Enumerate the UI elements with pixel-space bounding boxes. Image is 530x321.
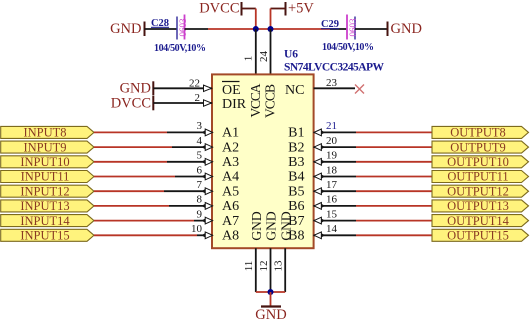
wire OUTPUT12 (red) bbox=[356, 190, 432, 192]
pin A1 bidirectional arrow bbox=[202, 129, 213, 136]
pin name GND (bottom 1, rotated) bbox=[249, 211, 264, 240]
svg-text:OUTPUT13: OUTPUT13 bbox=[447, 199, 509, 213]
pin B3 bidirectional arrow bbox=[314, 158, 325, 165]
wire to pin A7 (black) bbox=[194, 220, 212, 222]
svg-text:+5V: +5V bbox=[288, 1, 314, 17]
wire INPUT8 (red) bbox=[94, 131, 167, 133]
svg-text:GND: GND bbox=[391, 21, 422, 37]
svg-text:2: 2 bbox=[195, 92, 201, 104]
svg-text:9: 9 bbox=[197, 208, 203, 220]
svg-text:GND: GND bbox=[255, 307, 286, 321]
svg-text:B4: B4 bbox=[288, 170, 304, 185]
wire to bottom GND bbox=[270, 292, 272, 307]
ground symbol GND (bottom) bbox=[255, 307, 286, 321]
pin name VCCB (rotated) bbox=[263, 84, 278, 118]
svg-text:SN74LVCC3245APW: SN74LVCC3245APW bbox=[284, 62, 385, 74]
pin number 17 bbox=[326, 179, 338, 191]
pin A2 bidirectional arrow bbox=[202, 144, 213, 151]
svg-text:NC: NC bbox=[285, 83, 304, 98]
svg-text:A8: A8 bbox=[222, 229, 239, 244]
svg-text:21: 21 bbox=[326, 120, 337, 132]
net flag OUTPUT14 bbox=[432, 214, 529, 228]
ground symbol GND (top left) bbox=[110, 21, 144, 37]
svg-text:GND: GND bbox=[278, 211, 293, 240]
pin name A7 bbox=[222, 214, 239, 229]
pin name VCCA (rotated) bbox=[248, 83, 263, 117]
svg-text:GND: GND bbox=[120, 81, 151, 97]
svg-text:13: 13 bbox=[273, 260, 285, 272]
svg-text:GND: GND bbox=[249, 211, 264, 240]
pin number 15 bbox=[326, 208, 338, 220]
pin number 11 bbox=[243, 261, 255, 272]
pin number 7 bbox=[197, 179, 203, 191]
net flag INPUT8 bbox=[1, 126, 94, 140]
wire OUTPUT11 (red) bbox=[356, 176, 432, 178]
wire INPUT11 (red) bbox=[94, 176, 175, 178]
capacitor C29 bbox=[321, 15, 374, 54]
svg-text:18: 18 bbox=[326, 164, 338, 176]
wire C29 to GND bbox=[355, 28, 388, 30]
pin 22 input arrow bbox=[204, 85, 212, 91]
pin number 24 bbox=[258, 51, 270, 63]
net flag OUTPUT10 bbox=[432, 155, 529, 169]
pin name A2 bbox=[222, 140, 239, 155]
pin B7 bidirectional arrow bbox=[314, 217, 325, 224]
wire rail to C29 bbox=[330, 28, 347, 30]
designator U6 bbox=[284, 49, 298, 61]
wire from pin B7 (black) bbox=[314, 220, 356, 222]
wire to pin A5 (black) bbox=[164, 190, 212, 192]
pin name A5 bbox=[222, 184, 239, 199]
power port DVCC (top) bbox=[199, 1, 241, 17]
wire +5V to rail bbox=[271, 9, 286, 30]
svg-text:24: 24 bbox=[258, 51, 270, 63]
pin A4 bidirectional arrow bbox=[202, 173, 213, 180]
svg-text:B3: B3 bbox=[288, 155, 304, 170]
svg-text:VCCA: VCCA bbox=[248, 83, 263, 117]
pin number 18 bbox=[326, 164, 338, 176]
pin name B7 bbox=[288, 214, 304, 229]
pin name B8 bbox=[288, 229, 304, 244]
pin name B4 bbox=[288, 170, 304, 185]
pin B6 bidirectional arrow bbox=[314, 203, 325, 210]
svg-text:OUTPUT15: OUTPUT15 bbox=[447, 229, 509, 243]
net flag INPUT9 bbox=[1, 140, 94, 154]
junction node ground bus bbox=[268, 289, 274, 295]
svg-text:5: 5 bbox=[197, 150, 203, 162]
svg-text:U6: U6 bbox=[284, 49, 298, 61]
wire to pin A6 (black) bbox=[169, 205, 212, 207]
net flag OUTPUT11 bbox=[432, 170, 529, 184]
pin name B3 bbox=[288, 155, 304, 170]
pin A5 bidirectional arrow bbox=[202, 188, 213, 195]
wire INPUT14 (red) bbox=[94, 220, 194, 222]
svg-text:A2: A2 bbox=[222, 140, 239, 155]
svg-text:A3: A3 bbox=[222, 155, 239, 170]
pin number 20 bbox=[326, 135, 338, 147]
wire OUTPUT8 (red) bbox=[356, 131, 432, 133]
svg-text:14: 14 bbox=[326, 223, 338, 235]
svg-text:VCCB: VCCB bbox=[263, 84, 278, 118]
svg-text:15: 15 bbox=[326, 208, 338, 220]
pin number 10 bbox=[191, 223, 203, 235]
wire OUTPUT14 (red) bbox=[356, 220, 432, 222]
wire DVCC to DIR pin 2 bbox=[153, 102, 212, 104]
svg-text:11: 11 bbox=[243, 261, 255, 272]
svg-text:OE: OE bbox=[222, 83, 241, 98]
svg-text:INPUT13: INPUT13 bbox=[20, 199, 69, 213]
net flag INPUT10 bbox=[1, 155, 94, 169]
wire GND to OE pin 22 bbox=[153, 87, 212, 89]
svg-text:OUTPUT11: OUTPUT11 bbox=[447, 170, 508, 184]
pin number 8 bbox=[197, 194, 203, 206]
wire to pin A3 (black) bbox=[167, 161, 212, 163]
svg-text:23: 23 bbox=[326, 77, 338, 89]
pin name GND (bottom 2, rotated) bbox=[264, 211, 279, 240]
net flag INPUT13 bbox=[1, 199, 94, 213]
pin number 3 bbox=[197, 120, 203, 132]
svg-text:GND: GND bbox=[264, 211, 279, 240]
wire INPUT9 (red) bbox=[94, 146, 172, 148]
svg-text:10: 10 bbox=[191, 223, 203, 235]
wire OUTPUT15 (red) bbox=[356, 234, 432, 236]
pin B1 bidirectional arrow bbox=[314, 129, 325, 136]
wire from pin B3 (black) bbox=[314, 161, 356, 163]
wire from pin B2 (black) bbox=[314, 146, 356, 148]
wire DVCC to rail bbox=[242, 9, 256, 30]
pin 2 input arrow bbox=[204, 100, 212, 106]
svg-text:22: 22 bbox=[189, 78, 200, 90]
pin number 6 bbox=[197, 164, 203, 176]
pin number 21 bbox=[326, 120, 337, 132]
wire to pin A8 (black) bbox=[197, 234, 212, 236]
pin name A6 bbox=[222, 199, 239, 214]
svg-text:B5: B5 bbox=[288, 184, 304, 199]
wire bottom ground bus (red) bbox=[256, 291, 285, 293]
wire from pin B4 (black) bbox=[314, 176, 356, 178]
junction node at pin 1 bbox=[253, 26, 259, 32]
pin B8 bidirectional arrow bbox=[314, 232, 325, 239]
pin A6 bidirectional arrow bbox=[202, 203, 213, 210]
power port DVCC (at DIR) bbox=[111, 96, 154, 112]
pin number 16 bbox=[326, 194, 338, 206]
wire OUTPUT13 (red) bbox=[356, 205, 432, 207]
net flag INPUT11 bbox=[1, 170, 94, 184]
wire from pin B6 (black) bbox=[314, 205, 356, 207]
wire from pin B5 (black) bbox=[314, 190, 356, 192]
svg-text:0603: 0603 bbox=[348, 18, 358, 37]
pin number 14 bbox=[326, 223, 338, 235]
pin name OE (with overline) bbox=[222, 82, 241, 98]
net flag INPUT12 bbox=[1, 184, 94, 198]
pin number 23 bbox=[326, 77, 338, 89]
svg-text:7: 7 bbox=[197, 179, 203, 191]
pin A3 bidirectional arrow bbox=[202, 158, 213, 165]
svg-text:INPUT10: INPUT10 bbox=[20, 155, 69, 169]
pin name GND (bottom 3, rotated) bbox=[278, 211, 293, 240]
svg-text:A6: A6 bbox=[222, 199, 239, 214]
svg-text:B1: B1 bbox=[288, 126, 304, 141]
wire to pin A4 (black) bbox=[175, 176, 212, 178]
svg-text:0603: 0603 bbox=[178, 18, 188, 37]
svg-text:DVCC: DVCC bbox=[111, 96, 151, 112]
net flag OUTPUT15 bbox=[432, 229, 529, 243]
pin number 22 bbox=[189, 78, 200, 90]
svg-text:INPUT15: INPUT15 bbox=[20, 229, 69, 243]
pin name A3 bbox=[222, 155, 239, 170]
svg-text:1: 1 bbox=[243, 56, 255, 62]
wire INPUT10 (red) bbox=[94, 161, 167, 163]
wire pin 11 (GND) bbox=[255, 248, 257, 292]
pin number 5 bbox=[197, 150, 203, 162]
pin number 4 bbox=[197, 135, 203, 147]
net flag OUTPUT13 bbox=[432, 199, 529, 213]
no-connect X marker bbox=[355, 85, 364, 94]
net flag OUTPUT9 bbox=[432, 140, 529, 154]
svg-text:OUTPUT9: OUTPUT9 bbox=[450, 140, 506, 154]
wire GND to C28 bbox=[145, 28, 177, 30]
svg-text:OUTPUT12: OUTPUT12 bbox=[447, 184, 509, 198]
svg-text:DVCC: DVCC bbox=[199, 1, 239, 17]
svg-text:INPUT11: INPUT11 bbox=[21, 170, 70, 184]
svg-text:A7: A7 bbox=[222, 214, 239, 229]
wire INPUT15 (red) bbox=[94, 234, 197, 236]
net flag INPUT14 bbox=[1, 214, 94, 228]
pin name B5 bbox=[288, 184, 304, 199]
pin number 1 bbox=[243, 56, 255, 62]
wire top power rail (red) bbox=[208, 28, 330, 30]
svg-text:A4: A4 bbox=[222, 170, 239, 185]
wire pin 23 NC bbox=[314, 87, 355, 89]
pin B5 bidirectional arrow bbox=[314, 188, 325, 195]
svg-text:A1: A1 bbox=[222, 126, 239, 141]
pin name NC bbox=[285, 83, 304, 98]
pin A7 bidirectional arrow bbox=[202, 217, 213, 224]
svg-text:C28: C28 bbox=[151, 18, 169, 29]
svg-text:INPUT14: INPUT14 bbox=[20, 214, 70, 228]
IC U6 SN74LVCC3245APW body bbox=[212, 74, 314, 248]
pin B2 bidirectional arrow bbox=[314, 144, 325, 151]
svg-text:GND: GND bbox=[110, 21, 141, 37]
ground symbol GND (top right) bbox=[388, 21, 422, 37]
svg-text:4: 4 bbox=[197, 135, 203, 147]
wire C28 right stub bbox=[185, 28, 209, 30]
capacitor C28 bbox=[151, 15, 206, 54]
wire to pin A1 (black) bbox=[167, 131, 212, 133]
svg-text:17: 17 bbox=[326, 179, 338, 191]
pin number 19 bbox=[326, 150, 338, 162]
pin A8 bidirectional arrow bbox=[202, 232, 213, 239]
pin name A8 bbox=[222, 229, 239, 244]
wire OUTPUT10 (red) bbox=[356, 161, 432, 163]
svg-text:104/50V,10%: 104/50V,10% bbox=[154, 43, 206, 54]
power port +5V (top) bbox=[286, 1, 315, 17]
wire OUTPUT9 (red) bbox=[356, 146, 432, 148]
svg-text:6: 6 bbox=[197, 164, 203, 176]
pin number 13 bbox=[273, 260, 285, 272]
svg-text:OUTPUT14: OUTPUT14 bbox=[447, 214, 510, 228]
wire from pin B1 (black) bbox=[314, 131, 356, 133]
svg-text:OUTPUT8: OUTPUT8 bbox=[450, 126, 506, 140]
net flag INPUT15 bbox=[1, 229, 94, 243]
junction node at pin 24 bbox=[268, 26, 274, 32]
pin B4 bidirectional arrow bbox=[314, 173, 325, 180]
pin number 9 bbox=[197, 208, 203, 220]
svg-text:C29: C29 bbox=[321, 19, 339, 30]
wire pin 13 (GND) bbox=[284, 248, 286, 292]
svg-text:12: 12 bbox=[258, 261, 270, 272]
pin name B1 bbox=[288, 126, 304, 141]
svg-text:INPUT12: INPUT12 bbox=[20, 184, 69, 198]
svg-text:16: 16 bbox=[326, 194, 338, 206]
svg-text:OUTPUT10: OUTPUT10 bbox=[447, 155, 509, 169]
wire to pin A2 (black) bbox=[172, 146, 212, 148]
power port GND (at OE) bbox=[120, 81, 154, 97]
pin number 2 bbox=[195, 92, 201, 104]
pin name B6 bbox=[288, 199, 304, 214]
pin name A4 bbox=[222, 170, 239, 185]
svg-text:3: 3 bbox=[197, 120, 203, 132]
svg-text:B2: B2 bbox=[288, 140, 304, 155]
svg-text:INPUT9: INPUT9 bbox=[23, 140, 66, 154]
wire pin 24 (VCCB) bbox=[270, 29, 272, 74]
net flag OUTPUT12 bbox=[432, 184, 529, 198]
wire from pin B8 (black) bbox=[314, 234, 356, 236]
wire INPUT13 (red) bbox=[94, 205, 169, 207]
svg-text:INPUT8: INPUT8 bbox=[23, 126, 66, 140]
wire pin 1 (VCCA) bbox=[255, 29, 257, 74]
svg-text:104/50V,10%: 104/50V,10% bbox=[322, 42, 374, 53]
wire pin 12 (GND) bbox=[270, 248, 272, 292]
svg-text:19: 19 bbox=[326, 150, 338, 162]
pin name A1 bbox=[222, 126, 239, 141]
svg-text:20: 20 bbox=[326, 135, 338, 147]
svg-text:DIR: DIR bbox=[222, 97, 247, 112]
pin name B2 bbox=[288, 140, 304, 155]
svg-text:A5: A5 bbox=[222, 184, 239, 199]
svg-text:8: 8 bbox=[197, 194, 203, 206]
net flag OUTPUT8 bbox=[432, 126, 529, 140]
wire INPUT12 (red) bbox=[94, 190, 164, 192]
pin name DIR bbox=[222, 97, 247, 112]
pin number 12 bbox=[258, 261, 270, 272]
value SN74LVCC3245APW bbox=[284, 62, 385, 74]
